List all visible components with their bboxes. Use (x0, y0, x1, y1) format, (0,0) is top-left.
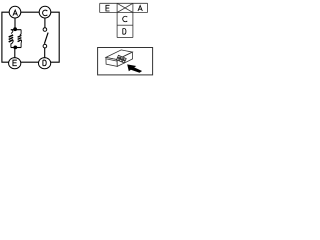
wire: left frame from terminal A left side, down, to terminal E (2, 12, 9, 62)
cube net: grid lines (100, 3, 148, 37)
wire: C down to switch (44, 18, 46, 28)
box icon: grille dots (117, 55, 127, 63)
wire: A to C top wire (21, 11, 40, 13)
cube net: X cell diagonals (117, 3, 133, 12)
wire: switch down to D (44, 48, 46, 58)
wire: E to D bottom wire (20, 61, 38, 63)
cube net: letter C (123, 16, 128, 22)
inductor L (left parallel branch, coil) (9, 30, 13, 48)
terminal C (39, 6, 51, 18)
wire: A down to top junction (14, 18, 16, 30)
box icon: top face (106, 50, 132, 60)
switch S bottom contact (43, 44, 47, 48)
cursor arrow (127, 64, 142, 72)
box icon: front face (106, 57, 117, 66)
button frame (98, 48, 153, 75)
wire: bottom junction down to E (14, 48, 16, 59)
switch S top contact (43, 28, 47, 32)
switch S lever (open) (44, 33, 48, 44)
terminal D (39, 58, 51, 69)
terminal A (9, 6, 21, 18)
cube net: white cells background (100, 3, 148, 37)
resistor R (right parallel branch, small coil) (18, 30, 22, 48)
cube net: letter D (123, 29, 126, 35)
cube net: letter A (138, 6, 142, 12)
terminal E (9, 58, 21, 69)
background (0, 0, 154, 77)
node: bottom junction dot (13, 46, 17, 50)
cube net: letter E (106, 5, 110, 11)
box icon: end face (117, 52, 133, 66)
wire: top rail of parallel branch (11, 29, 21, 31)
wire: bottom rail of parallel branch (11, 47, 21, 49)
box icon: lid seam (106, 59, 117, 61)
node: top junction dot (13, 27, 17, 31)
wire: right frame from C right side, down, to D right side (50, 12, 59, 62)
